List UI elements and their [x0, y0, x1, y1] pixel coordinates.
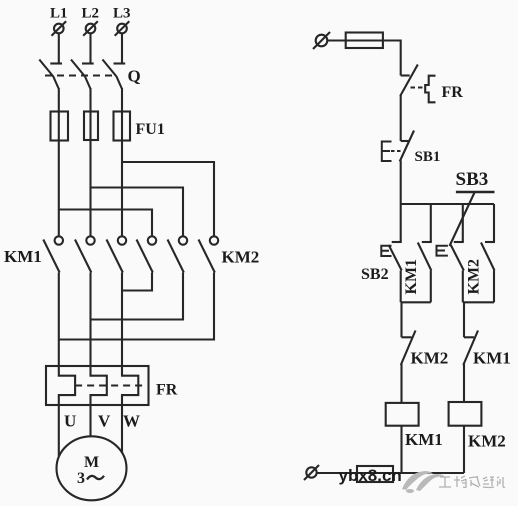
wire U to motor — [58, 405, 60, 456]
coil KM1 — [386, 403, 419, 426]
terminal L3 — [113, 6, 131, 36]
svg-text:3: 3 — [77, 470, 85, 487]
wire KM2 pole2 output to V column — [91, 273, 184, 320]
svg-text:U: U — [64, 412, 76, 431]
fuse on bottom bus — [357, 466, 393, 482]
svg-text:KM2: KM2 — [468, 432, 506, 451]
wire V to motor — [89, 405, 91, 436]
svg-text:L1: L1 — [50, 6, 68, 22]
control supply terminal (top) — [313, 32, 330, 49]
contactor KM2 main contact pole 2 — [168, 236, 188, 272]
svg-text:V: V — [98, 412, 111, 431]
wire right branch to KM1 interlock — [463, 302, 465, 337]
terminal L1 — [50, 6, 68, 36]
wire L2 to switch — [89, 33, 91, 63]
svg-text:M: M — [84, 454, 99, 471]
svg-text:L2: L2 — [82, 6, 100, 22]
wire L1 to switch — [58, 33, 60, 63]
switch Q linkage (dashed) — [45, 74, 113, 76]
wire left branch to KM2 interlock — [400, 302, 402, 337]
node rejoin bar right — [463, 301, 494, 303]
wire U column to FR — [58, 273, 60, 367]
switch Q pole 3 — [103, 60, 126, 89]
wire phase1 down to KM1 pole1 — [58, 141, 60, 237]
wire KM2 pole1 output to W column — [122, 273, 152, 291]
control supply terminal (bottom) — [304, 465, 319, 480]
node branch bar — [401, 203, 494, 205]
wire pole1 to fuse1 — [58, 88, 60, 141]
svg-text:W: W — [123, 412, 140, 431]
wire L3 to switch — [121, 33, 123, 63]
control fuse — [346, 33, 383, 49]
FR heater element 1 — [59, 366, 75, 405]
FR heater element 2 — [91, 366, 107, 405]
stop button SB1 (NC) — [382, 131, 414, 162]
svg-text:SB1: SB1 — [415, 149, 441, 165]
fuse FU1 element 1 — [51, 112, 69, 141]
svg-text:ybx8.cn: ybx8.cn — [339, 466, 402, 485]
wire KM1 coil to bottom bus — [400, 426, 402, 473]
wire V column to FR — [89, 273, 91, 367]
watermark logo swoosh — [402, 471, 445, 493]
wire W to motor — [121, 405, 123, 453]
contactor KM1 NC interlock contact — [463, 331, 478, 366]
svg-text:SB3: SB3 — [456, 169, 489, 190]
contactor KM1 main contact pole 2 — [75, 236, 95, 272]
wire KM2 coil to bottom bus — [463, 426, 465, 473]
svg-text:KM1: KM1 — [405, 430, 443, 449]
svg-text:KM1: KM1 — [4, 247, 42, 266]
wire branch phase1 to KM2 pole1 — [59, 210, 152, 237]
contactor KM1 aux contact (NO, self-hold) — [418, 242, 432, 271]
wire KM1 aux down — [430, 271, 432, 303]
wire SB2 down + rejoin bar left — [400, 271, 402, 303]
wire KM1 interlock to KM2 coil — [463, 364, 465, 402]
wire fuse to corner and down — [383, 41, 401, 76]
wire drop to KM2 aux — [493, 204, 495, 242]
contactor KM2 NC interlock contact — [401, 331, 416, 366]
svg-text:FU1: FU1 — [136, 121, 165, 138]
wire KM2 aux down — [493, 271, 495, 303]
motor M 3~ — [57, 436, 127, 500]
wire phase2 down to KM1 pole2 — [89, 141, 91, 237]
svg-text:KM2: KM2 — [411, 349, 449, 368]
svg-text:KM1: KM1 — [403, 259, 420, 295]
wire pole2 to fuse2 — [89, 88, 91, 141]
svg-text:KM2: KM2 — [466, 259, 483, 295]
wire bottom bus — [317, 472, 464, 474]
wire pole3 to fuse3 — [121, 88, 123, 141]
terminal L2 — [82, 6, 100, 36]
start button SB3 (NO) — [437, 242, 464, 271]
wire W column to FR — [121, 273, 123, 367]
svg-text:KM2: KM2 — [222, 248, 260, 267]
wire terminal to fuse — [327, 39, 345, 41]
node rejoin bar left — [401, 301, 431, 303]
switch Q pole 1 — [39, 60, 62, 89]
start button SB2 (NO) — [381, 242, 401, 271]
wire SB3 down — [462, 271, 464, 303]
FR trip linkage (dashed) — [75, 384, 147, 386]
svg-text:KM1: KM1 — [473, 349, 511, 368]
wire KM2 interlock to KM1 coil — [400, 364, 402, 403]
svg-text:FR: FR — [156, 382, 178, 399]
fuse FU1 element 2 — [84, 112, 98, 141]
switch Q pole 2 — [71, 60, 94, 89]
contactor KM2 aux contact (NO, self-hold) — [481, 242, 495, 271]
wire FR to SB1 — [400, 95, 402, 141]
contactor KM1 main contact pole 3 — [107, 236, 127, 272]
wire drop to KM1 aux — [430, 204, 432, 242]
label SB3 (with leader) — [450, 169, 495, 246]
fuse FU1 element 3 — [114, 112, 131, 141]
wire branch phase2 to KM2 pole2 — [91, 188, 184, 237]
wire phase3 down to KM1 pole3 — [121, 141, 123, 237]
FR NC contact (control) — [400, 65, 435, 103]
svg-text:SB2: SB2 — [361, 266, 389, 283]
svg-text:L3: L3 — [113, 6, 131, 22]
thermal relay FR box — [46, 366, 149, 405]
svg-text:FR: FR — [442, 84, 464, 101]
wire branch phase3 to KM2 pole3 — [122, 162, 214, 236]
contactor KM1 main contact pole 1 — [43, 236, 63, 272]
svg-text:Q: Q — [128, 67, 141, 86]
contactor KM2 main contact pole 1 — [137, 236, 157, 272]
contactor KM2 main contact pole 3 — [199, 236, 219, 272]
wire KM2 pole3 output to U column — [59, 273, 214, 340]
watermark text 工控成培训 — [439, 476, 505, 488]
FR heater element 3 — [122, 366, 138, 405]
coil KM2 — [449, 402, 482, 426]
wire drop to SB3 — [462, 204, 464, 242]
wire drop to SB2 — [400, 204, 402, 242]
wire SB1 to branch bar — [400, 161, 402, 205]
